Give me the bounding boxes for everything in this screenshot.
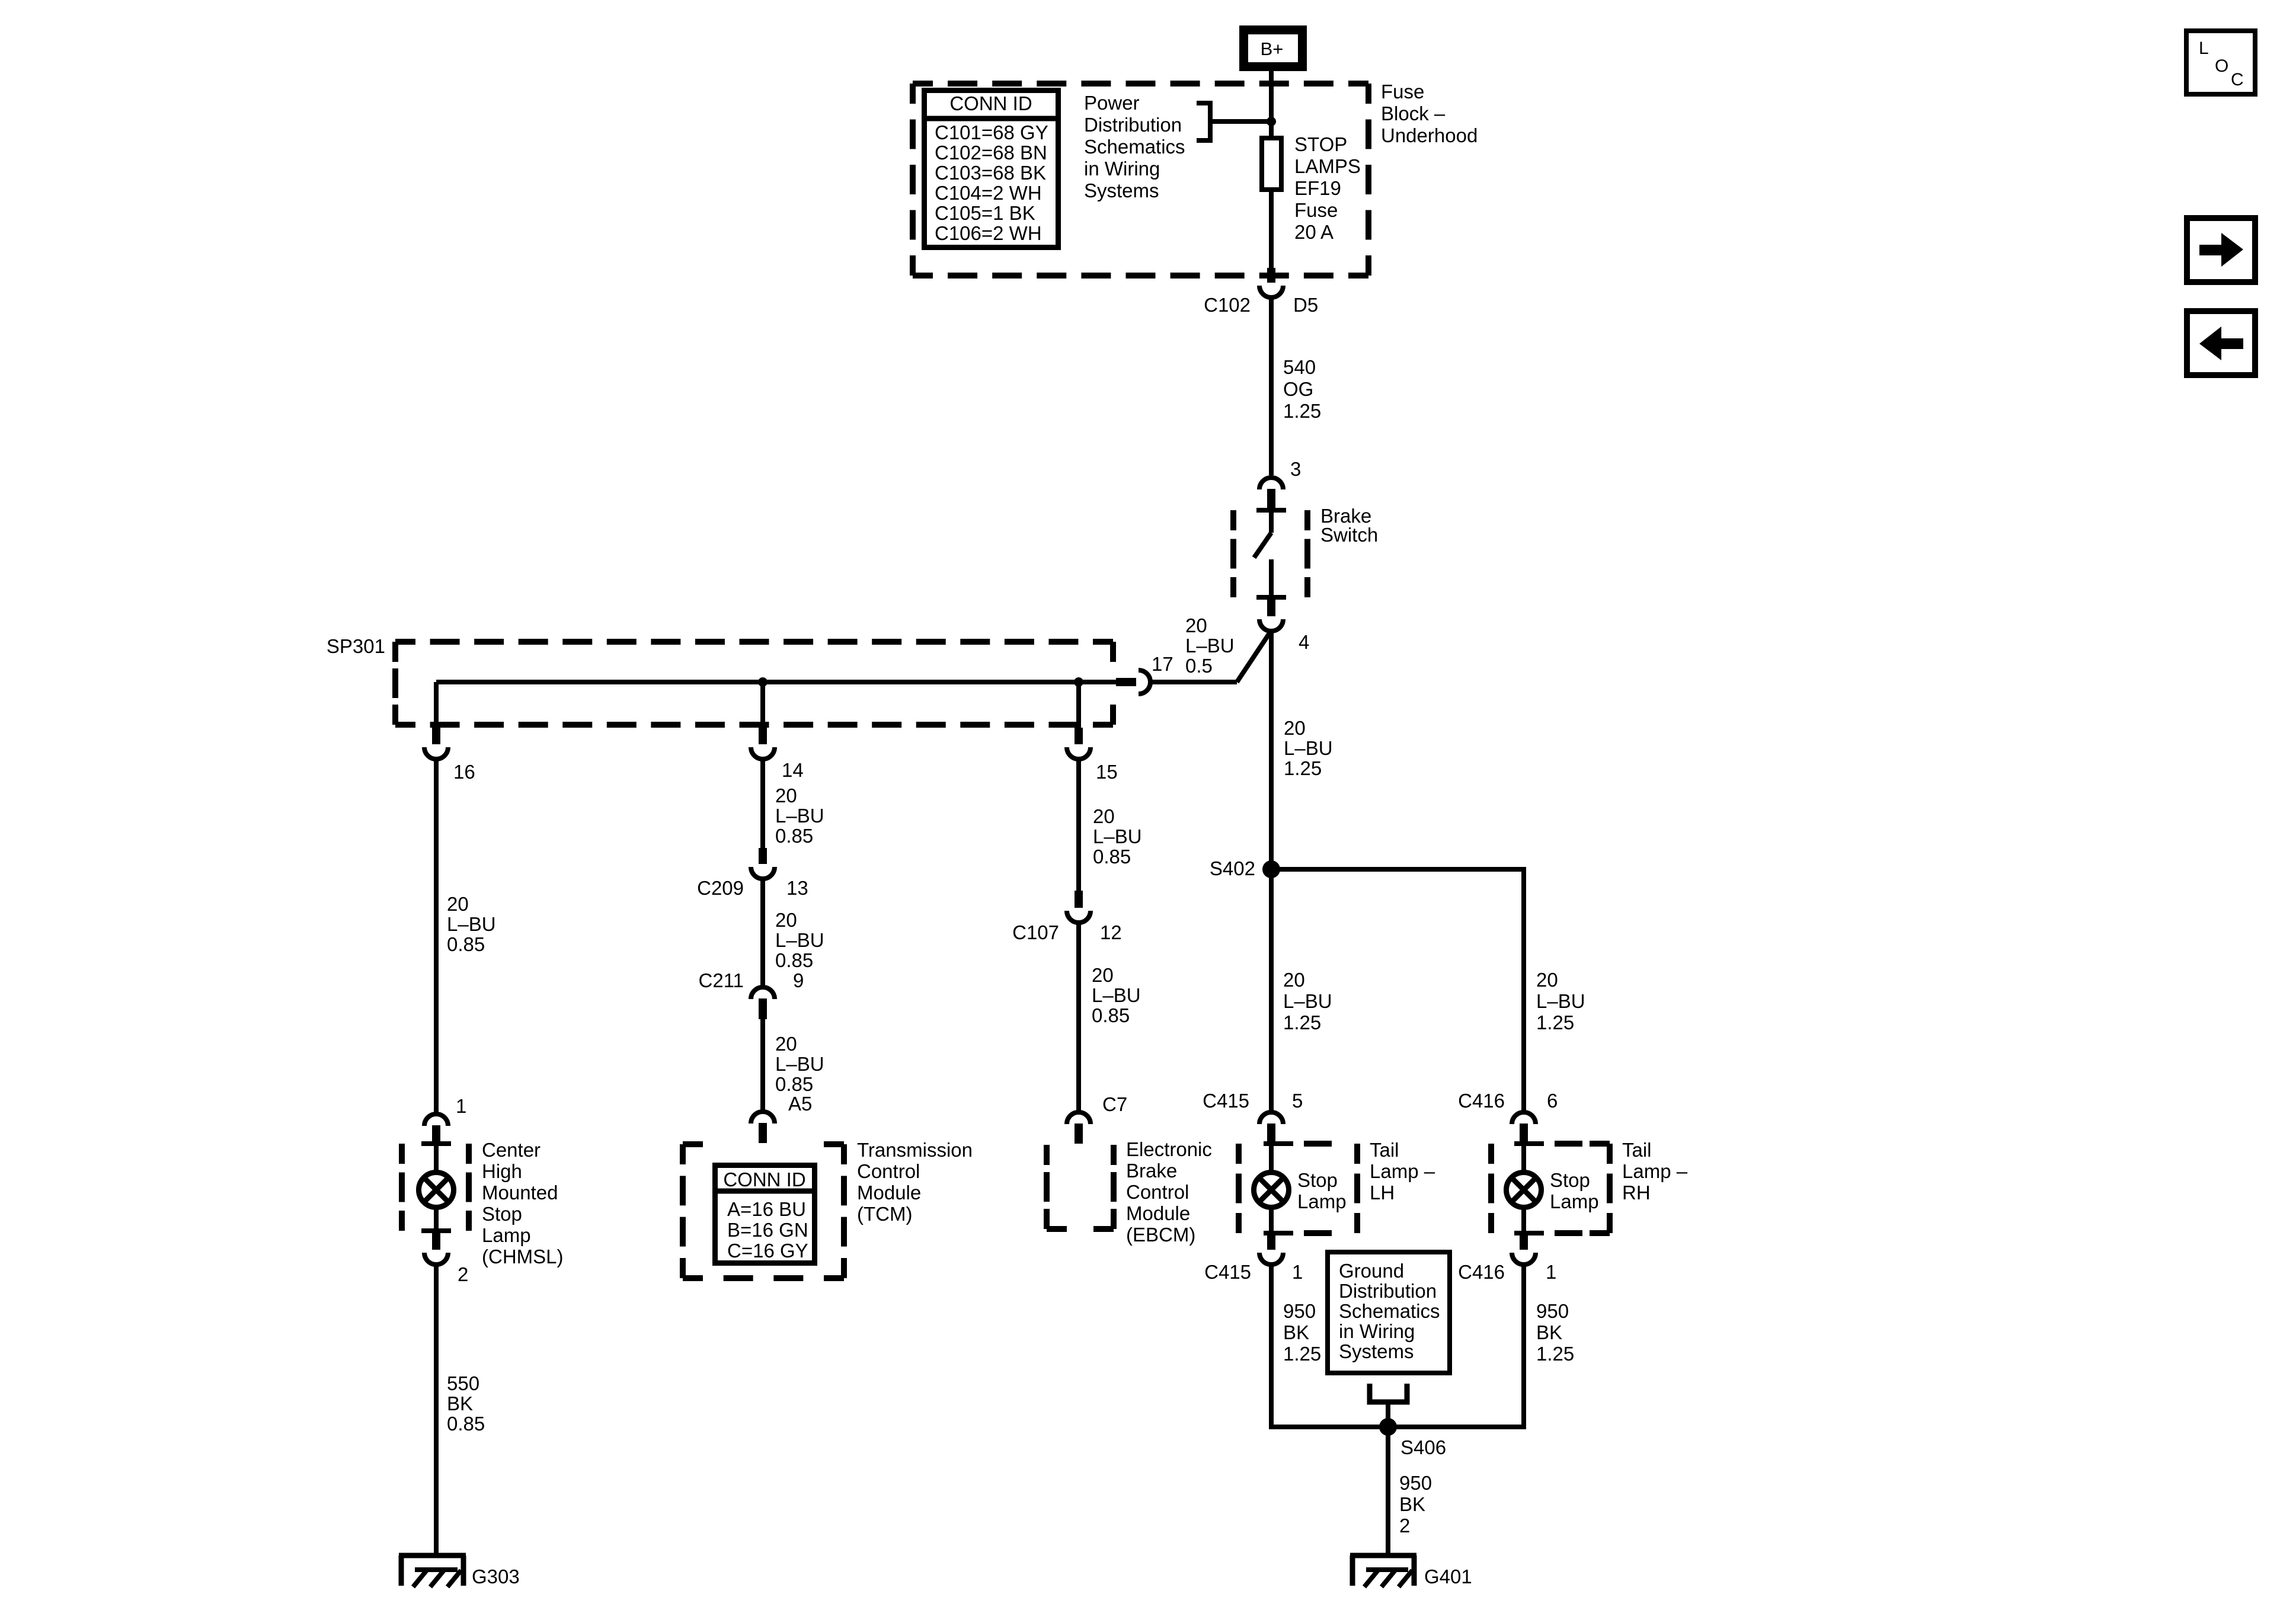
junction S402	[1262, 860, 1280, 878]
svg-text:17: 17	[1152, 653, 1173, 675]
wire branch to splice 17	[1149, 680, 1237, 684]
pin label 1 (LH)	[1292, 1261, 1303, 1283]
wire S402 to RH branch	[1271, 867, 1524, 872]
svg-text:1.25: 1.25	[1284, 757, 1322, 779]
lamp contact top (CHMSL)	[421, 1141, 451, 1146]
svg-text:Center: Center	[482, 1139, 541, 1161]
label SP301	[327, 635, 385, 657]
pin label 5	[1292, 1090, 1303, 1112]
lamp contact top (LH)	[1264, 1141, 1332, 1146]
svg-text:Distribution: Distribution	[1084, 114, 1182, 136]
connector pin 16	[424, 728, 448, 759]
lamp contact bottom (CHMSL)	[421, 1228, 451, 1233]
svg-text:D5: D5	[1293, 294, 1318, 316]
fuse EF19 STOP LAMPS 20 A	[1262, 138, 1281, 190]
connector pin 1 CHMSL	[424, 1114, 448, 1143]
svg-text:15: 15	[1096, 761, 1118, 783]
pin label A5	[788, 1093, 812, 1115]
connector pin C7 (EBCM)	[1067, 1112, 1091, 1144]
label Power Distribution Schematics in Wiring Systems	[1084, 92, 1185, 201]
wire label 950 BK 2	[1399, 1472, 1432, 1537]
svg-text:G401: G401	[1424, 1566, 1472, 1587]
svg-text:L–BU: L–BU	[1284, 737, 1333, 759]
label STOP LAMPS EF19 Fuse 20 A	[1294, 133, 1361, 243]
svg-text:BK: BK	[1399, 1493, 1425, 1515]
svg-text:C: C	[2231, 70, 2244, 89]
wire label 20 L-BU 1.25 (above S402)	[1284, 717, 1333, 779]
component box TCM (dashed)	[683, 1144, 844, 1278]
wire lamp bottom (CHMSL)	[434, 1206, 439, 1231]
svg-text:13: 13	[786, 877, 808, 899]
svg-text:(CHMSL): (CHMSL)	[482, 1246, 564, 1267]
wire RH branch down	[1521, 867, 1526, 1111]
svg-text:14: 14	[782, 759, 804, 781]
connector pin A5 (TCM)	[751, 1112, 775, 1143]
ground G401	[1350, 1555, 1416, 1587]
svg-text:Schematics: Schematics	[1339, 1300, 1440, 1322]
svg-text:1.25: 1.25	[1536, 1343, 1574, 1365]
svg-text:550: 550	[447, 1372, 479, 1394]
connector C416 pin 6	[1512, 1112, 1536, 1144]
pin label 17	[1152, 653, 1173, 675]
pin label 13	[786, 877, 808, 899]
svg-text:20: 20	[775, 909, 797, 931]
reference bracket to Power Distribution	[1197, 103, 1268, 140]
svg-text:L: L	[2199, 39, 2209, 58]
svg-text:(EBCM): (EBCM)	[1126, 1224, 1195, 1246]
svg-text:0.85: 0.85	[775, 825, 813, 847]
svg-text:EF19: EF19	[1294, 177, 1341, 199]
svg-text:20: 20	[775, 785, 797, 806]
svg-text:OG: OG	[1283, 378, 1313, 400]
wire label 20 L-BU 1.25 (RH)	[1536, 969, 1585, 1033]
label Electronic Brake Control Module (EBCM)	[1126, 1138, 1212, 1246]
wire label 20 L-BU 0.85 (TCM upper)	[775, 785, 824, 847]
svg-text:SP301: SP301	[327, 635, 385, 657]
svg-text:Module: Module	[857, 1182, 921, 1204]
svg-text:9: 9	[793, 969, 804, 991]
connector-ID table (fuse block)	[922, 91, 1061, 248]
svg-text:O: O	[2215, 56, 2228, 76]
wire C416-1 to S406	[1388, 1263, 1526, 1429]
svg-text:Mounted: Mounted	[482, 1182, 558, 1204]
label C416 (top)	[1458, 1090, 1505, 1112]
wire label 20 L-BU 0.85 (EBCM lower)	[1092, 964, 1141, 1026]
svg-text:L–BU: L–BU	[775, 1053, 824, 1075]
connector-ID table (TCM)	[712, 1166, 817, 1263]
wire drop pin 15	[1076, 682, 1081, 730]
lamp contact bottom (RH)	[1514, 1231, 1582, 1235]
svg-text:5: 5	[1292, 1090, 1303, 1112]
lamp CHMSL	[419, 1173, 454, 1208]
svg-text:C7: C7	[1102, 1093, 1127, 1115]
label S406	[1400, 1436, 1446, 1458]
pin label 4	[1299, 631, 1309, 653]
svg-text:2: 2	[1399, 1515, 1410, 1537]
svg-text:Schematics: Schematics	[1084, 136, 1185, 158]
svg-text:B+: B+	[1261, 39, 1284, 59]
wire C211 to A5	[760, 1018, 765, 1110]
svg-text:Lamp: Lamp	[1550, 1190, 1599, 1212]
svg-text:Control: Control	[857, 1160, 920, 1182]
svg-text:A=16 BU: A=16 BU	[727, 1198, 806, 1220]
splice pack SP301 (dashed box)	[395, 642, 1113, 725]
svg-text:950: 950	[1399, 1472, 1432, 1494]
svg-text:C102=68 BN: C102=68 BN	[935, 142, 1047, 164]
junction dot SP301-15	[1074, 677, 1083, 687]
svg-text:Switch: Switch	[1320, 524, 1378, 546]
wire S406 to G401	[1386, 1427, 1390, 1555]
wire lamp top (LH)	[1269, 1144, 1274, 1173]
component box Fuse Block - Underhood (dashed)	[913, 84, 1368, 276]
svg-text:S406: S406	[1400, 1436, 1446, 1458]
label S402	[1210, 857, 1255, 879]
svg-text:C209: C209	[697, 877, 744, 899]
connector C211 pin 9	[751, 987, 775, 1019]
wire branch node4 diagonal	[1237, 630, 1271, 682]
connector C107 pin 12	[1067, 891, 1091, 923]
svg-text:20: 20	[447, 893, 469, 915]
wire lamp bottom (RH)	[1521, 1206, 1526, 1233]
label Tail Lamp - LH	[1370, 1139, 1435, 1204]
label C415 (bottom)	[1204, 1261, 1251, 1283]
svg-text:Brake: Brake	[1126, 1160, 1177, 1182]
wire label 20 L-BU 0.85 (CHMSL)	[447, 893, 496, 955]
svg-text:Underhood: Underhood	[1381, 124, 1478, 146]
label G401	[1424, 1566, 1472, 1587]
pin label 16	[453, 761, 475, 783]
svg-text:16: 16	[453, 761, 475, 783]
reference bracket to Ground Distribution	[1370, 1384, 1407, 1402]
svg-text:20: 20	[775, 1033, 797, 1055]
svg-text:C102: C102	[1204, 294, 1251, 316]
label G303	[472, 1566, 520, 1587]
wire label 550 BK 0.85	[447, 1372, 485, 1435]
svg-text:C103=68 BK: C103=68 BK	[935, 162, 1046, 184]
svg-text:3: 3	[1290, 458, 1301, 480]
pin label 12	[1100, 921, 1122, 943]
svg-text:C105=1 BK: C105=1 BK	[935, 202, 1035, 224]
svg-text:C211: C211	[699, 969, 744, 991]
svg-text:Block –: Block –	[1381, 103, 1446, 124]
label Center High Mounted Stop Lamp (CHMSL)	[482, 1139, 564, 1267]
label C102	[1204, 294, 1251, 316]
wire bracket to S406	[1386, 1402, 1390, 1427]
label Transmission Control Module (TCM)	[857, 1139, 973, 1225]
pin label D5	[1293, 294, 1318, 316]
nav box arrow right	[2187, 218, 2255, 282]
wire B+ to fuse	[1269, 71, 1274, 138]
label Stop Lamp (LH)	[1297, 1169, 1347, 1212]
svg-text:0.85: 0.85	[775, 1073, 813, 1095]
svg-text:Module: Module	[1126, 1202, 1190, 1224]
wire label 950 BK 1.25 (LH)	[1283, 1300, 1321, 1365]
connector C416 pin 1	[1512, 1233, 1536, 1265]
lamp Stop Lamp LH	[1254, 1173, 1289, 1208]
svg-text:High: High	[482, 1160, 522, 1182]
svg-text:C104=2 WH: C104=2 WH	[935, 182, 1042, 204]
component box EBCM (dashed)	[1047, 1145, 1114, 1229]
wire 15 to C107	[1076, 760, 1081, 893]
svg-text:L–BU: L–BU	[1536, 990, 1585, 1012]
connector C209 pin 13	[751, 848, 775, 879]
svg-text:L–BU: L–BU	[1185, 635, 1235, 657]
svg-text:Lamp: Lamp	[482, 1224, 531, 1246]
svg-text:20: 20	[1283, 969, 1305, 991]
svg-text:0.85: 0.85	[447, 933, 485, 955]
svg-text:12: 12	[1100, 921, 1122, 943]
switch wire bottom	[1269, 559, 1274, 597]
svg-text:in Wiring: in Wiring	[1084, 158, 1160, 180]
svg-text:1.25: 1.25	[1283, 400, 1321, 422]
connector pin 14	[751, 728, 775, 759]
svg-text:C416: C416	[1458, 1261, 1505, 1283]
svg-text:Control: Control	[1126, 1181, 1189, 1203]
switch wire top	[1269, 510, 1274, 533]
pin label C7	[1102, 1093, 1127, 1115]
svg-text:Fuse: Fuse	[1294, 199, 1338, 221]
junction dot SP301-14	[758, 677, 768, 687]
connector pin 2 CHMSL	[424, 1231, 448, 1265]
label Fuse Block - Underhood	[1381, 81, 1478, 146]
wire 14 to C209	[760, 760, 765, 850]
pin label 6	[1547, 1090, 1558, 1112]
svg-text:C101=68 GY: C101=68 GY	[935, 121, 1048, 143]
svg-text:Stop: Stop	[1297, 1169, 1338, 1191]
bus wire SP301	[436, 680, 1116, 684]
pin label 14	[782, 759, 804, 781]
junction S406	[1379, 1418, 1397, 1436]
svg-text:L–BU: L–BU	[1093, 825, 1142, 847]
ground G303	[399, 1555, 466, 1587]
pin label 15	[1096, 761, 1118, 783]
svg-text:G303: G303	[472, 1566, 520, 1587]
wire C415-1 to S406	[1269, 1263, 1388, 1429]
svg-text:Lamp: Lamp	[1297, 1190, 1347, 1212]
legend box LOC	[2186, 31, 2255, 94]
svg-text:Power: Power	[1084, 92, 1140, 114]
svg-text:950: 950	[1283, 1300, 1316, 1322]
svg-text:L–BU: L–BU	[1283, 990, 1332, 1012]
wire drop pin 14	[760, 682, 765, 730]
svg-text:0.5: 0.5	[1185, 655, 1213, 677]
junction dot (fuse block feed)	[1267, 117, 1276, 126]
svg-text:LAMPS: LAMPS	[1294, 155, 1361, 177]
svg-text:4: 4	[1299, 631, 1309, 653]
label C211	[699, 969, 744, 991]
wire fuse to C102	[1269, 190, 1274, 274]
lamp Stop Lamp RH	[1507, 1173, 1542, 1208]
svg-text:Systems: Systems	[1339, 1340, 1414, 1362]
svg-text:C106=2 WH: C106=2 WH	[935, 222, 1042, 244]
svg-text:540: 540	[1283, 356, 1316, 378]
wire label 950 BK 1.25 (RH)	[1536, 1300, 1574, 1365]
svg-text:BK: BK	[1283, 1321, 1309, 1343]
svg-text:Lamp –: Lamp –	[1622, 1160, 1688, 1182]
label Tail Lamp - RH	[1622, 1139, 1688, 1204]
svg-text:Tail: Tail	[1370, 1139, 1399, 1161]
label C107	[1012, 921, 1059, 943]
svg-text:STOP: STOP	[1294, 133, 1347, 155]
svg-text:(TCM): (TCM)	[857, 1203, 912, 1225]
component box Tail Lamp LH (dashed)	[1239, 1144, 1357, 1233]
svg-text:Transmission: Transmission	[857, 1139, 973, 1161]
switch blade (open)	[1254, 533, 1271, 558]
wire lamp top (RH)	[1521, 1144, 1526, 1173]
svg-text:1.25: 1.25	[1283, 1343, 1321, 1365]
svg-text:20: 20	[1093, 805, 1115, 827]
svg-text:20: 20	[1284, 717, 1306, 739]
svg-text:Stop: Stop	[482, 1203, 522, 1225]
svg-text:20: 20	[1092, 964, 1114, 986]
wire C209 to C211	[760, 876, 765, 985]
pin label 1 (CHMSL)	[456, 1095, 466, 1117]
svg-text:Tail: Tail	[1622, 1139, 1652, 1161]
svg-text:950: 950	[1536, 1300, 1569, 1322]
label C415 (top)	[1203, 1090, 1249, 1112]
svg-text:0.85: 0.85	[1092, 1004, 1130, 1026]
label C416 (bottom)	[1458, 1261, 1505, 1283]
svg-text:20: 20	[1185, 614, 1207, 636]
svg-text:BK: BK	[1536, 1321, 1562, 1343]
svg-text:L–BU: L–BU	[775, 929, 824, 951]
wire C102 to brake switch	[1269, 299, 1274, 475]
svg-text:0.85: 0.85	[775, 949, 813, 971]
svg-text:C107: C107	[1012, 921, 1059, 943]
svg-text:CONN ID: CONN ID	[949, 92, 1032, 114]
reference box Ground Distribution Schematics in Wiring Systems	[1328, 1252, 1450, 1373]
pin label 1 (RH)	[1546, 1261, 1556, 1283]
pin label 3	[1290, 458, 1301, 480]
svg-text:Systems: Systems	[1084, 180, 1159, 201]
svg-text:LH: LH	[1370, 1182, 1395, 1204]
component box Brake Switch (dashed)	[1233, 510, 1307, 597]
label C209	[697, 877, 744, 899]
svg-text:B=16 GN: B=16 GN	[727, 1219, 808, 1241]
svg-text:Stop: Stop	[1550, 1169, 1590, 1191]
svg-text:Distribution: Distribution	[1339, 1280, 1437, 1302]
connector C415 pin 5	[1259, 1112, 1283, 1144]
svg-text:C415: C415	[1203, 1090, 1249, 1112]
wire label 20 L-BU 0.5	[1185, 614, 1235, 677]
svg-text:BK: BK	[447, 1393, 473, 1414]
component box CHMSL (dashed)	[402, 1144, 469, 1231]
wire label 20 L-BU 0.85 (EBCM upper)	[1093, 805, 1142, 868]
svg-text:A5: A5	[788, 1093, 812, 1115]
component box Tail Lamp RH (dashed)	[1491, 1144, 1610, 1233]
wire CHMSL to G303	[434, 1263, 439, 1555]
svg-text:20 A: 20 A	[1294, 221, 1334, 243]
switch contact top	[1256, 508, 1286, 513]
wire drop pin 16	[434, 682, 439, 730]
svg-text:C416: C416	[1458, 1090, 1505, 1112]
connector pin 3 (brake switch)	[1259, 478, 1283, 510]
wire lamp bottom (LH)	[1269, 1206, 1274, 1233]
svg-text:Electronic: Electronic	[1126, 1138, 1212, 1160]
connector pin 4 (brake switch)	[1259, 597, 1283, 631]
svg-text:6: 6	[1547, 1090, 1558, 1112]
svg-text:Fuse: Fuse	[1381, 81, 1424, 103]
connector pin 15	[1067, 728, 1091, 759]
wire C107 to C7	[1076, 921, 1081, 1110]
svg-text:C415: C415	[1204, 1261, 1251, 1283]
svg-text:Ground: Ground	[1339, 1260, 1404, 1282]
svg-text:0.85: 0.85	[1093, 846, 1131, 868]
svg-text:1: 1	[1292, 1261, 1303, 1283]
wire 16 to CHMSL	[434, 760, 439, 1112]
wire label 20 L-BU 0.85 (TCM between C209 and C211)	[775, 909, 824, 971]
lamp contact bottom (LH)	[1264, 1231, 1332, 1235]
connector C102 pin D5	[1259, 268, 1283, 297]
svg-text:1.25: 1.25	[1536, 1012, 1574, 1033]
svg-text:0.85: 0.85	[447, 1413, 485, 1435]
label Stop Lamp (RH)	[1550, 1169, 1599, 1212]
svg-text:L–BU: L–BU	[447, 913, 496, 935]
svg-text:1: 1	[1546, 1261, 1556, 1283]
svg-text:C=16 GY: C=16 GY	[727, 1240, 808, 1262]
wire trunk node4 to C415	[1269, 630, 1274, 1111]
lamp contact top (RH)	[1514, 1141, 1582, 1146]
pin label 2 (CHMSL)	[458, 1263, 468, 1285]
svg-text:CONN ID: CONN ID	[723, 1169, 805, 1190]
svg-text:in Wiring: in Wiring	[1339, 1320, 1415, 1342]
wire label 540 OG 1.25	[1283, 356, 1321, 422]
connector pin 17 (splice pack)	[1116, 670, 1150, 694]
svg-text:Lamp –: Lamp –	[1370, 1160, 1435, 1182]
svg-text:20: 20	[1536, 969, 1558, 991]
wire label 20 L-BU 0.85 (TCM mid)	[775, 1033, 824, 1095]
wire lamp top (CHMSL)	[434, 1144, 439, 1173]
label Brake Switch	[1320, 505, 1378, 546]
svg-text:L–BU: L–BU	[1092, 984, 1141, 1006]
svg-text:RH: RH	[1622, 1182, 1651, 1204]
power symbol B+	[1244, 30, 1303, 67]
wire label 20 L-BU 1.25 (LH)	[1283, 969, 1332, 1033]
svg-text:2: 2	[458, 1263, 468, 1285]
svg-text:S402: S402	[1210, 857, 1255, 879]
pin label 9	[793, 969, 804, 991]
svg-text:L–BU: L–BU	[775, 805, 824, 827]
svg-text:1: 1	[456, 1095, 466, 1117]
switch contact bottom	[1256, 595, 1286, 600]
connector C415 pin 1	[1259, 1233, 1283, 1265]
svg-text:1.25: 1.25	[1283, 1012, 1321, 1033]
nav box arrow left	[2187, 311, 2255, 375]
